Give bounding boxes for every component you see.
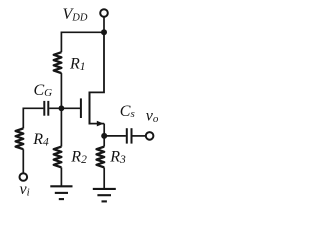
wire Cs to vo terminal	[132, 135, 145, 137]
label vo	[146, 108, 159, 126]
wire top rail	[61, 31, 104, 33]
node source junction dot	[101, 133, 107, 139]
wire R1 bottom lead to gate node	[60, 73, 62, 108]
wire source down to node	[103, 124, 105, 147]
label R1	[69, 56, 86, 73]
wire R4 to vi terminal	[22, 149, 24, 172]
wire source node to Cs	[104, 135, 126, 137]
terminal vo	[146, 132, 154, 140]
svg-text:vi: vi	[20, 181, 30, 199]
transistor Q1 source lead with arrow	[90, 123, 105, 125]
resistor R2	[54, 147, 62, 168]
svg-text:CG: CG	[34, 82, 53, 99]
svg-text:R3: R3	[109, 149, 126, 166]
svg-text:R1: R1	[69, 56, 86, 73]
resistor R3	[97, 147, 105, 168]
label CG	[34, 82, 53, 99]
label R4	[32, 131, 49, 148]
wire CG to gate	[49, 107, 80, 109]
svg-text:R2: R2	[70, 149, 87, 166]
node junction dot at VDD rail	[101, 29, 107, 35]
terminal vi	[20, 173, 28, 181]
transistor Q1 drain lead	[90, 32, 105, 92]
svg-text:VDD: VDD	[63, 6, 88, 24]
label vi	[20, 181, 30, 199]
svg-text:Cs: Cs	[120, 103, 135, 120]
label Cs	[120, 103, 135, 120]
wire left drop to R4	[22, 108, 24, 129]
svg-text:R4: R4	[32, 131, 49, 148]
node gate junction dot	[59, 105, 65, 111]
ground under R3	[93, 189, 116, 202]
label R2	[70, 149, 87, 166]
wire R3 to ground	[103, 167, 105, 189]
resistor R4	[16, 128, 24, 149]
wire R1 top lead	[60, 32, 62, 53]
transistor Q1 channel bar	[89, 92, 91, 125]
capacitor Cs	[127, 128, 132, 143]
label R3	[109, 149, 126, 166]
svg-text:vo: vo	[146, 108, 159, 126]
transistor Q1 gate bar	[80, 98, 82, 118]
wire R2 to ground	[60, 167, 62, 186]
label VDD	[63, 6, 88, 24]
terminal VDD	[100, 9, 108, 17]
resistor R1	[54, 52, 62, 73]
capacitor CG	[44, 101, 48, 116]
wire input to capacitor CG	[23, 107, 43, 109]
wire VDD stem	[103, 17, 105, 32]
wire R2 top lead	[60, 108, 62, 146]
ground under R2	[50, 186, 72, 199]
